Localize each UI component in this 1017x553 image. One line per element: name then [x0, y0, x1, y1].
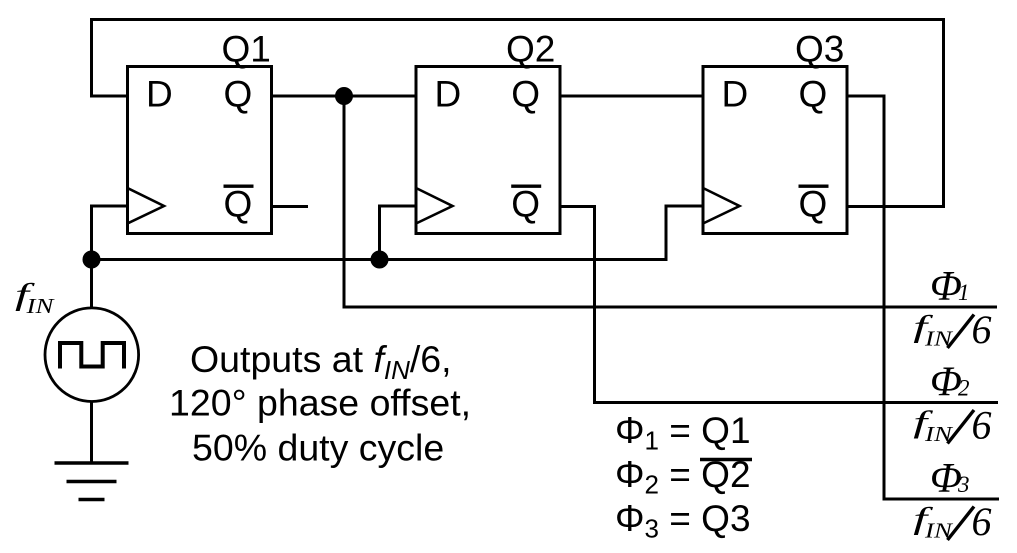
label fIN: [15, 278, 56, 318]
svg-text:6: 6: [972, 403, 992, 448]
svg-text:1: 1: [958, 280, 970, 305]
svg-text:6: 6: [972, 307, 992, 352]
flip-flop U1 box: [128, 67, 272, 234]
source V1 circle: [45, 308, 139, 402]
svg-text:Q: Q: [799, 74, 828, 115]
wire Q̄2 down to PHI2 rail: [560, 207, 998, 403]
flip-flop U3 box: [703, 67, 847, 234]
svg-text:Q: Q: [224, 74, 253, 115]
wire Q2 to D3: [560, 95, 703, 98]
wire Q1 to D2: [272, 95, 417, 98]
svg-text:Q: Q: [511, 184, 540, 225]
svg-text:Q1: Q1: [222, 29, 271, 70]
svg-text:Outputs at fIN/6,: Outputs at fIN/6,: [190, 338, 452, 385]
svg-text:6: 6: [972, 499, 992, 544]
svg-text:3: 3: [957, 472, 970, 497]
wire feedback Q̄3 to D1 (top loop): [92, 20, 944, 207]
net fIN/6 label 1: [913, 307, 991, 352]
wire Q̄1 stub: [272, 205, 309, 208]
svg-text:D: D: [146, 74, 173, 115]
flip-flop U2 box: [416, 67, 560, 234]
svg-text:D: D: [435, 74, 462, 115]
junction dot CLK1: [83, 251, 101, 269]
svg-text:Q2: Q2: [506, 29, 555, 70]
svg-text:Q: Q: [224, 184, 253, 225]
svg-text:120° phase offset,: 120° phase offset,: [169, 382, 471, 424]
flip-flop U2 clock triangle: [416, 188, 453, 224]
svg-text:IN: IN: [25, 296, 55, 319]
wire source to ground: [90, 403, 93, 464]
wire clock rail to CLK3: [92, 206, 704, 260]
junction dot Q1 node: [335, 87, 353, 105]
wire CLK2 riser: [380, 206, 417, 260]
svg-text:2: 2: [958, 376, 970, 401]
wire Q1 node down to PHI1 rail: [344, 96, 997, 307]
net fIN/6 label 3: [913, 499, 991, 544]
svg-text:50% duty cycle: 50% duty cycle: [192, 427, 444, 469]
wire source to clock rail: [90, 260, 93, 308]
svg-text:Q: Q: [511, 74, 540, 115]
wire CLK1 riser: [92, 206, 128, 260]
svg-text:Q: Q: [799, 184, 828, 225]
source V1 square-wave glyph: [60, 343, 124, 369]
svg-text:D: D: [722, 74, 749, 115]
ground: [55, 463, 129, 500]
svg-text:Φ1 = Q1: Φ1 = Q1: [615, 410, 751, 456]
flip-flop U1 clock triangle: [128, 188, 165, 224]
wire Q3 down to PHI3 rail: [847, 96, 999, 499]
svg-text:Q3: Q3: [795, 29, 844, 70]
net fIN/6 label 2: [913, 403, 991, 448]
svg-text:Φ3 = Q3: Φ3 = Q3: [615, 498, 751, 544]
flip-flop U3 clock triangle: [703, 188, 740, 224]
junction dot CLK2: [371, 251, 389, 269]
